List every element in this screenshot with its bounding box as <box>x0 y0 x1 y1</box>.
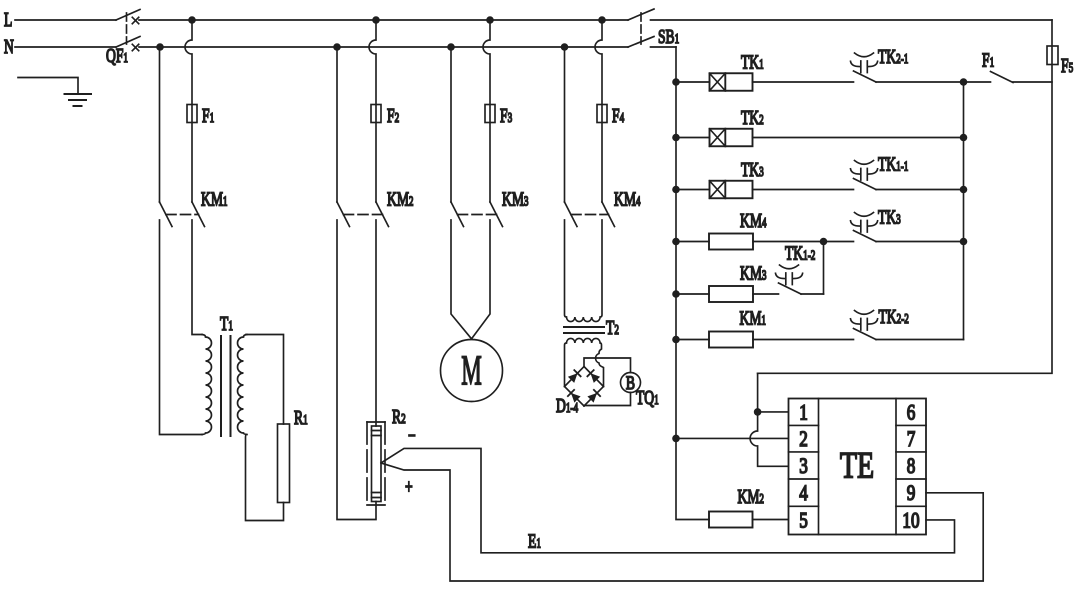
contact KM2 mechanical link <box>344 214 383 216</box>
contact KM3 left pole blade <box>451 202 464 227</box>
svg-text:B: B <box>626 372 635 394</box>
contact KM1 mechanical link <box>166 214 199 216</box>
svg-text:KM4: KM4 <box>740 209 767 231</box>
solenoid coil TK1 <box>710 73 753 91</box>
contact KM3 right pole blade <box>490 202 503 227</box>
svg-text:F1: F1 <box>202 104 214 126</box>
fuse F3 <box>485 105 495 123</box>
fuse F1 <box>187 105 197 123</box>
junction on L at x=602 <box>598 16 606 24</box>
wire N branch to KM1 left pole <box>159 47 161 202</box>
contactor coil KM4 <box>709 234 753 250</box>
wire branch from L at x=490 with crossover hop <box>483 20 490 202</box>
wire KM1 left pole to T1 primary bottom <box>160 220 203 435</box>
junction on control left bus y=339.5 <box>672 336 680 344</box>
junction on L at x=192 <box>188 16 196 24</box>
thermal contact TK2-2 <box>854 329 877 340</box>
wire KM3 left pole to motor <box>451 220 472 339</box>
svg-text:−: − <box>408 424 416 446</box>
svg-text:2: 2 <box>799 427 808 452</box>
breaker QF1 pole 1 contact cross <box>132 17 138 23</box>
svg-text:5: 5 <box>799 508 808 533</box>
svg-text:KM1: KM1 <box>201 188 228 210</box>
junction row4/row5 branch <box>820 238 828 246</box>
junction on control left bus y=241.5 <box>672 238 680 246</box>
svg-text:KM2: KM2 <box>738 485 765 507</box>
wire KM1 coil to contact TK2-2 <box>753 339 854 341</box>
wire KM2 coil row <box>753 519 789 521</box>
junction on N at x=337 <box>333 43 341 51</box>
wire L line left segment <box>15 19 116 21</box>
wire N branch to KM2 left pole <box>336 47 338 202</box>
solenoid coil TK3 <box>710 181 753 199</box>
contact KM4 right pole blade <box>602 202 615 227</box>
wire KM4 coil to contact TK3 <box>753 241 854 243</box>
timer module TE body <box>789 399 927 535</box>
wire contact TK3 to right bus <box>876 241 964 243</box>
svg-text:T2: T2 <box>606 316 619 338</box>
breaker QF1 mechanical link <box>126 13 128 44</box>
fuse F5 <box>1047 46 1058 65</box>
junction on N at x=451 <box>447 43 455 51</box>
svg-text:N: N <box>4 35 14 57</box>
junction on control left bus y=294 <box>672 290 680 298</box>
junction on control right bus y=82 <box>960 78 968 86</box>
wire row5 left bus to KM3 coil <box>676 293 709 295</box>
svg-text:F3: F3 <box>500 104 512 126</box>
wire left bus to TE pin 2 <box>676 437 789 439</box>
contact KM2 left pole blade <box>337 202 350 227</box>
wire contact TK2-2 to right bus <box>876 339 964 341</box>
solenoid coil TK2 <box>710 129 753 147</box>
wire L to fuse F5 and down to TE <box>758 20 1052 373</box>
transformer T1 core <box>221 336 231 436</box>
wire KM3 right pole to motor <box>472 220 491 339</box>
contactor coil KM2 <box>709 512 753 528</box>
breaker QF1 pole 2 contact cross <box>132 44 138 50</box>
wire TK1 coil to contact TK2-1 <box>753 81 854 83</box>
wire L bus <box>139 19 628 21</box>
wire contact TK2-1 to right bus <box>876 81 964 83</box>
fuse F4 <box>597 105 607 123</box>
ground symbol <box>65 94 92 106</box>
wire TE pin 10 to E1 line to R2 minus <box>381 448 955 552</box>
motor M1 circle <box>441 340 503 402</box>
junction on control left bus y=438.4 <box>672 435 680 443</box>
bell B circle <box>621 373 641 393</box>
svg-text:TK2-2: TK2-2 <box>879 305 910 327</box>
svg-text:KM2: KM2 <box>387 188 414 210</box>
switch SB1 mechanical link <box>640 13 642 44</box>
wire contact TK1-2 to row4 branch <box>801 293 824 295</box>
svg-text:L: L <box>4 8 12 30</box>
thermal contact TK3 <box>854 231 877 242</box>
wire T1 secondary top to R1 <box>246 335 284 425</box>
thermal contact TK2-1 <box>854 71 877 82</box>
junction on control right bus y=241.5 <box>960 238 968 246</box>
wire branch from L at x=376 with crossover hop <box>369 20 376 202</box>
svg-text:KM1: KM1 <box>740 307 767 329</box>
svg-text:KM3: KM3 <box>502 188 529 210</box>
svg-text:R2: R2 <box>392 405 406 427</box>
svg-text:TK2-1: TK2-1 <box>878 45 909 67</box>
svg-text:8: 8 <box>907 454 916 479</box>
svg-text:F1: F1 <box>982 49 994 71</box>
svg-text:4: 4 <box>799 481 808 506</box>
svg-text:TE: TE <box>840 446 874 486</box>
contact KM2 right pole blade <box>376 202 389 227</box>
diode D1 (top-left arm) <box>568 373 578 383</box>
thermal contact TK1-2 <box>779 283 802 294</box>
svg-text:R1: R1 <box>294 406 308 428</box>
contactor coil KM3 <box>709 286 753 302</box>
wire row6 left bus to KM1 coil <box>676 339 709 341</box>
contact KM4 left pole blade <box>565 202 578 227</box>
transformer T2 primary winding and leads <box>565 220 603 322</box>
thermal contact TK1-1 <box>854 179 877 190</box>
svg-text:6: 6 <box>907 400 916 425</box>
svg-text:F5: F5 <box>1061 54 1073 76</box>
svg-text:1: 1 <box>799 400 808 425</box>
junction on control left bus y=137.5 <box>672 134 680 142</box>
contact KM3 mechanical link <box>458 214 497 216</box>
wire KM2 right pole down to R2 top <box>375 220 377 426</box>
wire branch from L at x=192 with crossover hop <box>185 20 192 202</box>
wire row3 left bus to TK3 coil <box>676 189 710 191</box>
svg-text:QF1: QF1 <box>106 44 128 66</box>
diode D3 (bottom-left arm) <box>571 393 581 403</box>
svg-text:M: M <box>461 349 482 395</box>
junction on control left bus y=82 <box>672 78 680 86</box>
ground wire <box>18 78 78 95</box>
resistor R2 element <box>372 426 382 502</box>
diode D2 (top-right arm) <box>591 373 601 383</box>
diode D4 (bottom-right arm) <box>587 393 597 403</box>
wire TE pins 1-3 link with crossover hop <box>750 373 788 466</box>
wire switch F1 to F5 line <box>1013 81 1052 83</box>
transformer T1 secondary winding <box>238 335 247 435</box>
wire branch from L at x=602 with crossover hop <box>595 20 602 202</box>
junction on control right bus y=137.5 <box>960 134 968 142</box>
svg-text:3: 3 <box>799 454 808 479</box>
svg-text:7: 7 <box>907 427 916 452</box>
wire contact TK1-1 to right bus <box>876 189 964 191</box>
breaker QF1 pole 1 blade <box>116 10 140 21</box>
junction on L at x=490 <box>486 16 494 24</box>
transformer T1 primary winding <box>202 335 212 435</box>
wire control left bus <box>676 47 709 520</box>
wire to TE pin 1 <box>758 411 789 413</box>
switch F1 blade <box>991 72 1014 83</box>
svg-text:T1: T1 <box>220 312 233 334</box>
switch SB1 pole 2 blade <box>628 37 654 48</box>
svg-text:10: 10 <box>902 508 919 533</box>
svg-text:F2: F2 <box>387 104 399 126</box>
fuse F2 <box>371 105 381 123</box>
wire T1 secondary bottom to R1 bottom <box>246 435 284 521</box>
svg-text:TK1-2: TK1-2 <box>785 242 816 264</box>
junction on control right bus y=189.5 <box>960 186 968 194</box>
wire row1 left bus to TK1 coil <box>676 81 710 83</box>
wire TE pin 9 to R2 plus <box>381 463 983 581</box>
svg-text:KM3: KM3 <box>740 262 767 284</box>
wire TK2 coil to right bus <box>753 137 964 139</box>
contact KM1 left pole blade <box>160 202 173 227</box>
junction TE pin1 branch <box>754 408 762 416</box>
switch SB1 pole 1 blade <box>628 9 654 20</box>
wire KM2 left pole down to R2 bottom <box>337 220 376 520</box>
breaker QF1 pole 2 blade <box>116 37 140 48</box>
junction on N at x=160 <box>156 43 164 51</box>
junction on N at x=564.5 <box>561 43 569 51</box>
junction on control left bus y=189.5 <box>672 186 680 194</box>
wire N branch to KM4 left pole <box>564 47 566 202</box>
wire N to control bus <box>651 46 677 48</box>
svg-text:SB1: SB1 <box>658 25 679 47</box>
svg-text:KM4: KM4 <box>614 188 641 210</box>
wire control right bus <box>963 82 965 340</box>
resistor R1 <box>278 424 290 503</box>
wire KM3 coil to contact TK1-2 <box>753 293 779 295</box>
wire KM1 right pole to T1 primary top <box>192 220 202 335</box>
wire bridge positive to bell B <box>584 358 631 373</box>
svg-text:TK3: TK3 <box>741 158 764 180</box>
transformer T2 secondary winding and leads with crossover hop <box>565 338 604 386</box>
svg-text:TK3: TK3 <box>878 206 901 228</box>
contact KM1 right pole blade <box>192 202 205 227</box>
contact KM4 mechanical link <box>571 214 609 216</box>
wire row4 left bus to KM4 coil <box>676 241 709 243</box>
svg-text:TQ1: TQ1 <box>636 386 659 408</box>
wire TK3 coil to contact TK1-1 <box>753 189 854 191</box>
resistor R2 outer case <box>367 422 385 505</box>
wire N bus <box>139 46 628 48</box>
svg-text:E1: E1 <box>528 530 541 552</box>
wire N branch to KM3 left pole <box>450 47 452 202</box>
svg-text:TK2: TK2 <box>741 106 764 128</box>
svg-text:TK1-1: TK1-1 <box>878 153 909 175</box>
wire L bus after SB1 <box>651 19 1053 21</box>
wire bell B to bridge negative <box>584 393 631 407</box>
wire right bus to switch F1 <box>964 81 991 83</box>
rectifier bridge D1-4 diamond <box>565 367 604 407</box>
contactor coil KM1 <box>709 332 753 348</box>
wire row2 left bus to TK2 coil <box>676 137 710 139</box>
resistor R2 element end caps <box>372 431 382 498</box>
svg-text:F4: F4 <box>612 104 624 126</box>
svg-text:+: + <box>405 475 413 497</box>
junction on L at x=376 <box>372 16 380 24</box>
svg-text:9: 9 <box>907 481 916 506</box>
wire N line left segment <box>15 46 116 48</box>
wire row4 branch down to TK1-2 output <box>823 242 825 295</box>
transformer T2 core <box>564 327 604 333</box>
svg-text:TK1: TK1 <box>741 51 764 73</box>
